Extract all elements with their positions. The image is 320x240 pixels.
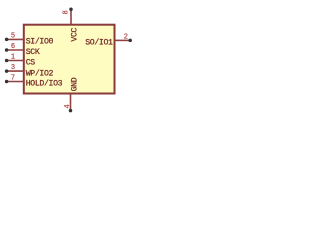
svg-text:8: 8	[62, 10, 70, 14]
pin 1 end dot	[5, 59, 9, 63]
svg-text:3: 3	[11, 64, 15, 72]
svg-text:WP/IO2: WP/IO2	[26, 68, 54, 78]
svg-text:5: 5	[11, 32, 15, 40]
pin 8 VCC wire	[70, 9, 72, 25]
pin 6 end dot	[5, 48, 9, 52]
pin 4 end dot	[69, 109, 73, 113]
svg-text:HOLD/IO3: HOLD/IO3	[26, 79, 63, 89]
pin 3 WP/IO2 wire	[7, 70, 24, 72]
pin 5 SI/IO0 wire	[7, 38, 24, 40]
pin 7 end dot	[5, 80, 9, 84]
pin 1 CS wire	[7, 60, 24, 62]
svg-text:1: 1	[11, 54, 15, 62]
svg-text:VCC: VCC	[70, 27, 79, 41]
svg-text:SO/IO1: SO/IO1	[85, 37, 113, 47]
svg-text:7: 7	[11, 75, 15, 83]
pin 8 end dot	[69, 8, 73, 12]
svg-text:GND: GND	[70, 77, 79, 91]
pin 7 HOLD/IO3 wire	[7, 81, 24, 83]
svg-text:SCK: SCK	[26, 48, 40, 57]
pin 5 end dot	[5, 38, 9, 42]
pin 4 GND wire	[70, 94, 72, 111]
svg-text:4: 4	[64, 104, 72, 108]
svg-text:6: 6	[11, 43, 15, 51]
svg-text:2: 2	[124, 33, 128, 41]
svg-text:CS: CS	[26, 59, 36, 68]
pin 3 end dot	[5, 69, 9, 73]
svg-text:SI/IO0: SI/IO0	[26, 37, 54, 47]
pin 2 SO/IO1 wire	[115, 39, 131, 41]
pin 6 SCK wire	[7, 49, 24, 51]
pin 2 end dot	[128, 39, 132, 43]
IC body	[24, 25, 115, 94]
